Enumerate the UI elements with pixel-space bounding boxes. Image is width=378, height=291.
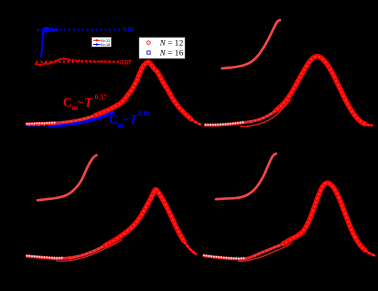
inset mini legend blue dot <box>96 43 98 45</box>
svg-text:0.68: 0.68 <box>123 27 135 34</box>
bottom-right main red specific-heat curve tapered end <box>365 250 375 255</box>
top-left blue square markers on tail <box>28 124 30 126</box>
bottom-left tail band <box>27 242 111 258</box>
svg-text:0.67: 0.67 <box>120 59 132 66</box>
top-left main red specific-heat curve tapered end <box>188 116 201 124</box>
bottom-left red sparse open-circle markers <box>26 255 28 257</box>
top-right main red specific-heat curve marker-core highlight <box>250 56 372 125</box>
inset mini legend box <box>92 37 111 46</box>
main legend box <box>139 37 186 59</box>
bottom-left panel: thin N=16 line <box>56 239 122 261</box>
inset blue cluster blob <box>43 27 48 32</box>
inset red data points <box>35 63 37 65</box>
svg-text:N = 16: N = 16 <box>159 48 184 58</box>
bottom-right tail band <box>204 240 289 259</box>
top-left main red specific-heat curve marker-core highlight <box>62 62 201 124</box>
inset blue cluster data <box>43 28 45 30</box>
svg-text:N = 12: N = 12 <box>159 38 183 48</box>
legend red open circle (N=12) <box>147 41 150 44</box>
legend blue open square (N=16) <box>147 51 150 54</box>
top-right main red specific-heat curve tapered end <box>363 123 373 126</box>
top-right tail band <box>206 103 285 125</box>
bottom-right main red specific-heat curve marker-core highlight <box>254 183 375 256</box>
svg-text:N=16: N=16 <box>101 43 110 47</box>
top-right inset curve <box>222 20 280 68</box>
inset blue dotted line at 0.68 <box>37 29 121 31</box>
inset red dotted line at 0.67 <box>36 61 119 63</box>
inset mini legend blue entry line <box>93 44 101 46</box>
top-right red sparse open-circle markers <box>204 124 206 126</box>
bottom-left main red specific-heat curve marker-core highlight <box>69 189 196 258</box>
top-left tail band <box>27 115 95 124</box>
top-left panel: N=16 blue curve <box>50 113 113 126</box>
inset mini legend red entry line <box>93 39 101 41</box>
bottom-left main red specific-heat curve tapered end <box>184 241 196 254</box>
inset mini legend red dot <box>96 39 98 41</box>
bottom-left inset curve <box>38 155 97 200</box>
bottom-right panel: thin N=16 line <box>238 242 292 261</box>
bottom-right inset curve <box>216 154 276 200</box>
inset blue rising data line <box>41 31 43 57</box>
inset red data connecting line <box>36 59 118 65</box>
inset red data error bars <box>35 62 37 65</box>
inset blue rising data <box>40 55 42 57</box>
top-left red sparse open-circle markers <box>26 123 28 125</box>
bottom-right red sparse open-circle markers <box>203 254 205 256</box>
top-right panel: thin N=16 line <box>240 100 291 127</box>
